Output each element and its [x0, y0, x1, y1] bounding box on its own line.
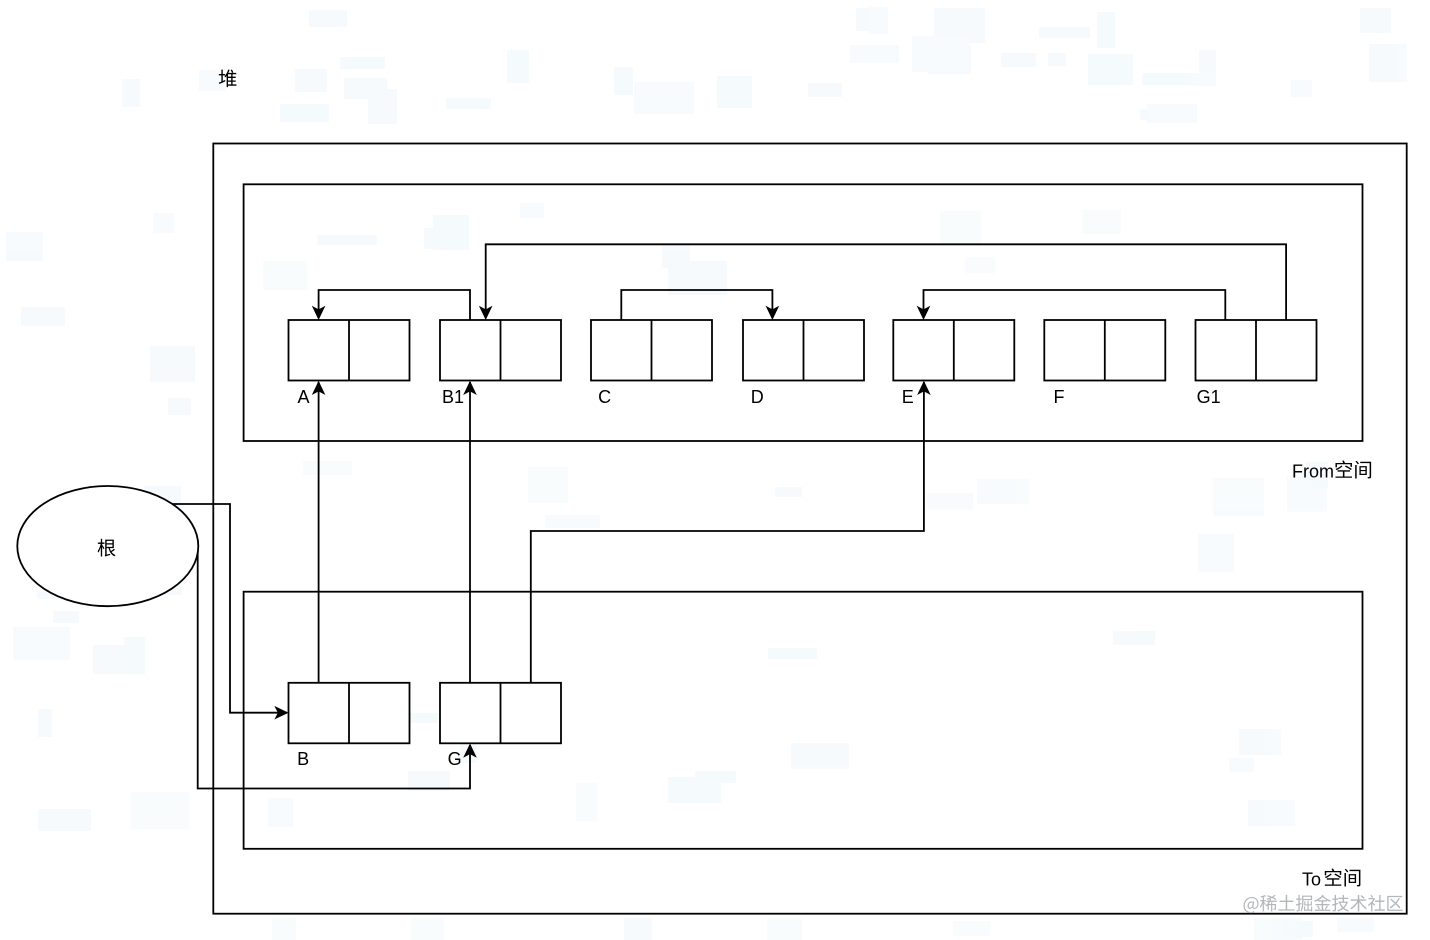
svg-text:D: D — [751, 387, 764, 407]
heap label 堆 — [219, 69, 237, 87]
object box D — [743, 320, 864, 381]
arrowhead into A top — [312, 306, 326, 320]
arrowhead into A bottom — [312, 381, 326, 395]
wire C to D — [621, 290, 772, 320]
wire G to E (jog) — [531, 382, 924, 683]
svg-text:C: C — [598, 387, 611, 407]
wire G1 to E — [924, 290, 1226, 320]
From space rectangle — [244, 184, 1363, 441]
svg-text:B: B — [297, 749, 309, 769]
root ellipse 根 — [17, 486, 198, 606]
arrowhead into E top — [917, 306, 931, 320]
wire B1 to A — [319, 290, 470, 320]
arrowhead into B left — [274, 706, 288, 720]
svg-text:E: E — [902, 387, 914, 407]
wire root to G — [198, 551, 470, 789]
To space rectangle — [244, 592, 1363, 849]
arrowhead into D top — [766, 306, 780, 320]
From space label 空间 — [1335, 460, 1371, 478]
object box C — [591, 320, 712, 381]
object box F — [1044, 320, 1165, 381]
root label 根 — [98, 539, 116, 557]
svg-text:A: A — [297, 387, 309, 407]
wire B to A (vertical) — [318, 382, 320, 683]
object box G1 — [1196, 320, 1317, 381]
wire root to B — [171, 504, 287, 713]
heap outer rectangle — [213, 144, 1406, 914]
svg-text:F: F — [1054, 387, 1065, 407]
object box B1 — [440, 320, 561, 381]
arrowhead into B1 top — [479, 306, 493, 320]
watermark @稀土掘金技术社区 — [1244, 895, 1403, 913]
svg-text:To: To — [1302, 870, 1321, 890]
arrowhead into B1 bottom — [463, 381, 477, 395]
arrowhead into E bottom — [917, 381, 931, 395]
arrowhead into G bottom — [463, 744, 477, 758]
To space label 空间 — [1325, 868, 1361, 886]
svg-text:G1: G1 — [1197, 387, 1221, 407]
svg-text:G: G — [448, 749, 462, 769]
svg-text:B1: B1 — [442, 387, 464, 407]
object box G — [440, 683, 561, 744]
object box B — [289, 683, 410, 744]
wire G to B1 (vertical) — [469, 382, 471, 683]
svg-text:From: From — [1292, 462, 1334, 482]
wire G1 to B1 (long top) — [486, 244, 1286, 320]
object box E — [893, 320, 1014, 381]
object box A — [289, 320, 410, 381]
